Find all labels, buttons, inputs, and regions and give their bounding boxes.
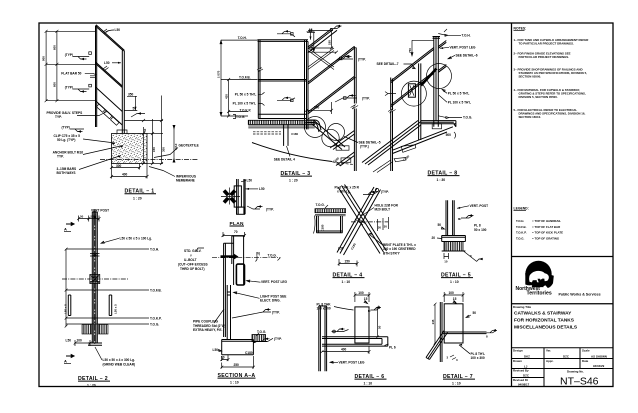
weld flag at rail top (330, 26, 342, 29)
svg-text:350: 350 (128, 92, 134, 96)
top sloped handrail (96, 25, 125, 51)
light post narrow rect (224, 243, 234, 337)
svg-text:500: 500 (446, 133, 452, 137)
svg-text:50: 50 (378, 325, 382, 329)
svg-text:L50: L50 (115, 28, 121, 32)
svg-text:(TYP): (TYP) (65, 86, 73, 90)
break zigzag on left vertical (388, 109, 396, 114)
white bear silhouette (529, 271, 549, 282)
dash-dot mid line (62, 278, 128, 280)
svg-text:MAX: MAX (174, 144, 178, 150)
grade dash-dot line (100, 159, 198, 161)
bracket at tank (307, 120, 322, 132)
svg-text:AS SHOWN: AS SHOWN (591, 355, 607, 359)
dark sleeve (236, 264, 244, 285)
svg-text:400: 400 (341, 347, 347, 351)
flat bar double line (90, 76, 96, 78)
svg-text:Appr.: Appr. (546, 359, 554, 363)
svg-text:(TYP.: (TYP. (272, 311, 280, 315)
weld flag near post2 base (131, 114, 145, 118)
svg-text:70: 70 (234, 230, 238, 234)
T.O.F.B. line (66, 289, 149, 291)
stringer channel sloped down-left (330, 131, 354, 150)
svg-text:Territories: Territories (527, 291, 552, 297)
mid rail ascending (308, 46, 356, 84)
svg-text:TYP.: TYP. (55, 115, 62, 119)
svg-text:Design: Design (513, 349, 523, 353)
svg-text:(TYP.: (TYP. (274, 337, 282, 341)
svg-text:(TYP.: (TYP. (381, 190, 389, 194)
svg-text:1 070: 1 070 (217, 70, 221, 78)
lower stringer diagonal (336, 152, 354, 166)
svg-text:L50 x 50 x 5 x 100 Lg.: L50 x 50 x 5 x 100 Lg. (120, 236, 153, 240)
right dim chain verticals (124, 96, 175, 166)
svg-text:T.O.K.P.: T.O.K.P. (516, 231, 527, 235)
weld flag (461, 216, 474, 219)
lower step rect (341, 158, 351, 162)
svg-text:C180: C180 (291, 132, 298, 136)
svg-text:THRD OF BOLT): THRD OF BOLT) (180, 267, 205, 271)
svg-text:T.O.H.: T.O.H. (150, 247, 159, 251)
rail stub beyond post (438, 41, 446, 49)
svg-text:SEE DETAIL–7: SEE DETAIL–7 (377, 62, 399, 66)
concrete pad (112, 134, 148, 164)
svg-text:1 : 20: 1 : 20 (133, 196, 142, 200)
left post (258, 40, 260, 119)
svg-text:15: 15 (309, 28, 313, 32)
dim 500 (307, 102, 332, 114)
svg-text:T.O.F.B.: T.O.F.B. (150, 288, 162, 292)
post top cap (433, 37, 441, 39)
svg-text:DKZ: DKZ (524, 355, 530, 359)
svg-text:T.O.G.: T.O.G. (268, 254, 277, 258)
svg-text:50: 50 (133, 107, 137, 111)
stringer diagonal band (down-left) (337, 187, 381, 255)
flat bar rail (258, 80, 306, 82)
svg-text:L50: L50 (104, 61, 110, 65)
base angle (88, 343, 102, 345)
svg-text:1 : 10: 1 : 10 (342, 280, 351, 284)
svg-text:400: 400 (122, 173, 128, 177)
vertical dim 180 (313, 32, 315, 51)
svg-text:L50: L50 (259, 187, 265, 191)
flat bar left section (68, 295, 71, 316)
dim 10 below (444, 253, 449, 259)
svg-text:T.O.G.: T.O.G. (463, 116, 472, 120)
svg-text:T.O.F.B.: T.O.F.B. (239, 75, 251, 79)
svg-text:DIVISION 5, SECTION 05500.: DIVISION 5, SECTION 05500. (519, 95, 558, 99)
divider above logo (512, 256, 614, 258)
tank arc left (314, 216, 316, 234)
svg-text:C180: C180 (245, 351, 253, 355)
svg-text:SEE DETAIL–6: SEE DETAIL–6 (456, 53, 478, 57)
svg-text:DZC: DZC (523, 374, 530, 378)
weld flag right of plate (371, 308, 382, 311)
svg-text:(6): (6) (256, 252, 260, 256)
T.O.K.P. line (66, 317, 149, 319)
svg-text:Date: Date (582, 359, 589, 363)
svg-text:15: 15 (364, 297, 368, 301)
note 5 (514, 108, 586, 119)
svg-text:BOTH WAYS: BOTH WAYS (57, 171, 76, 175)
plate rect (355, 307, 369, 343)
divider above title (512, 303, 614, 305)
svg-text:PL 6: PL 6 (389, 346, 396, 350)
svg-text:PL 100 x 5 TH'L: PL 100 x 5 TH'L (233, 102, 256, 106)
NWT polar bear logo (516, 261, 601, 297)
post break zigzag (351, 105, 359, 110)
bolt centreline dashed (351, 221, 388, 223)
clip angle on pad (117, 130, 127, 134)
svg-text:(TYP.: (TYP. (362, 96, 370, 100)
callout circle 2 (322, 129, 339, 146)
plate rect (444, 304, 463, 343)
svg-text:Drawing No.: Drawing No. (567, 370, 584, 374)
bold plate on rail (421, 69, 437, 86)
svg-text:(TYP): (TYP) (65, 53, 73, 57)
legend items (516, 219, 563, 240)
flat bar right section (109, 295, 112, 316)
mid connector block (90, 275, 100, 284)
section cut marker A bottom (66, 355, 74, 358)
upper rail ascending to post (391, 48, 434, 83)
steps on stringer (401, 145, 416, 153)
right panel divider (511, 23, 513, 387)
post tube (446, 200, 454, 235)
leader arrow right (245, 188, 258, 190)
low rail ascending (308, 76, 356, 114)
svg-text:STD. GALV.: STD. GALV. (184, 249, 202, 253)
svg-text:1 : 20: 1 : 20 (87, 383, 96, 387)
weld symbol mid left (332, 329, 349, 332)
svg-text:T.O.G.: T.O.G. (516, 236, 525, 240)
channel below grating (317, 216, 343, 233)
step rect on stringer (336, 146, 349, 150)
weld flag upper right (232, 310, 271, 319)
lower sloped stringer (96, 87, 123, 125)
svg-text:U–BOLT: U–BOLT (184, 258, 197, 262)
lower pipe post (227, 285, 230, 340)
svg-text:Drawing Title: Drawing Title (513, 305, 531, 309)
lower rail ascending (391, 72, 434, 107)
svg-text:T.O.G.: T.O.G. (316, 203, 325, 207)
note 2 (514, 51, 571, 59)
svg-text:LEGEND:: LEGEND: (514, 207, 529, 211)
svg-text:1 : 10: 1 : 10 (450, 280, 459, 284)
svg-text:PARTICULAR PROJECT DRAWINGS.: PARTICULAR PROJECT DRAWINGS. (519, 55, 570, 59)
svg-text:1 : 30: 1 : 30 (437, 178, 446, 182)
svg-text:T.O.K.P.: T.O.K.P. (150, 316, 162, 320)
svg-text:T.O.H.: T.O.H. (238, 36, 247, 40)
callout circle detail5 (328, 124, 345, 141)
svg-text:L50: L50 (66, 339, 72, 343)
svg-text:300: 300 (161, 147, 165, 152)
right post (305, 40, 309, 130)
dims 30 30 (378, 217, 389, 231)
top dims 50 50 (79, 216, 100, 222)
weld flag top (363, 192, 378, 195)
svg-text:L50 x 5: L50 x 5 (64, 304, 68, 314)
svg-text:(TYP.: (TYP. (266, 208, 274, 212)
T.O.G. line (66, 323, 149, 325)
svg-text:15: 15 (453, 297, 457, 301)
svg-text:430: 430 (224, 94, 228, 99)
svg-text:1 : 10: 1 : 10 (364, 381, 373, 385)
svg-text:TO PARTICULAR PROJECT DRAWINGS: TO PARTICULAR PROJECT DRAWINGS. (519, 42, 574, 46)
section cut marker A top (66, 223, 74, 226)
top handrail (258, 40, 309, 42)
tank shell arc (252, 143, 332, 162)
vertical bar (440, 302, 442, 362)
svg-text:180: 180 (327, 40, 331, 45)
svg-text:SECTION 05500.: SECTION 05500. (519, 74, 542, 78)
shallow stringer diagonal to landing (393, 127, 453, 154)
svg-text:EXTRA HEAVY, P.E.: EXTRA HEAVY, P.E. (193, 328, 222, 332)
dash-dot centreline (212, 257, 280, 259)
grating sections (82, 325, 92, 335)
svg-text:Scale: Scale (582, 349, 590, 353)
svg-text:= TOP OF HANDRAIL: = TOP OF HANDRAIL (532, 219, 561, 223)
bottom dims 50 250 (222, 355, 228, 361)
svg-text:T.O.G.: T.O.G. (236, 115, 245, 119)
left vertical stringer line (391, 78, 393, 172)
svg-text:150: 150 (345, 259, 351, 263)
mid sloped rail (96, 62, 123, 88)
svg-text:Public Works & Services: Public Works & Services (559, 292, 601, 296)
svg-text:= TOP OF FLAT BAR: = TOP OF FLAT BAR (532, 225, 561, 229)
callout circle 1 (305, 117, 326, 138)
svg-text:TYP.: TYP. (57, 155, 64, 159)
svg-text:T.O.F.B.: T.O.F.B. (516, 225, 527, 229)
svg-text:MEMBRANE: MEMBRANE (176, 179, 195, 183)
svg-text:T.O.G.: T.O.G. (150, 322, 159, 326)
svg-text:20: 20 (432, 236, 436, 240)
dim 50 rotated right (377, 307, 379, 337)
post joint marks (90, 254, 100, 257)
svg-text:VERT. POST: VERT. POST (470, 204, 489, 208)
bottom dim 300 (112, 164, 140, 170)
dim ext line at y52 (308, 51, 338, 54)
svg-text:600: 600 (53, 45, 57, 50)
horizontal rail line (442, 332, 487, 334)
svg-text:50: 50 (143, 128, 147, 132)
note 4 (514, 88, 586, 99)
top dim line at post (411, 40, 434, 56)
dim 100 top (444, 292, 463, 302)
weld symbol top (277, 31, 295, 37)
callout circle left (401, 81, 426, 106)
grating band (248, 120, 314, 124)
left dimension line pair (45, 30, 96, 102)
svg-text:FOR HORIZONTAL TANKS: FOR HORIZONTAL TANKS (514, 318, 575, 324)
svg-text:50: 50 (80, 215, 84, 219)
hidden dash line under grating (253, 131, 281, 133)
svg-text:50: 50 (221, 356, 225, 360)
svg-text:50: 50 (438, 223, 442, 227)
svg-text:C180: C180 (321, 224, 325, 231)
svg-text:600: 600 (53, 82, 57, 87)
svg-text:VERT. POST LEG: VERT. POST LEG (450, 45, 477, 49)
callout circle right (427, 64, 452, 89)
grating band (315, 209, 346, 213)
svg-text:A: A (64, 359, 67, 364)
svg-text:SEE DETAIL 4: SEE DETAIL 4 (274, 157, 295, 161)
svg-text:= TOP OF KICK PLATE: = TOP OF KICK PLATE (532, 231, 563, 235)
svg-text:750: 750 (408, 48, 412, 53)
diagonal channel band (426, 331, 448, 360)
svg-text:NT–S46: NT–S46 (560, 376, 599, 388)
grating rect under post (432, 124, 441, 129)
handrail post L50 vertical (96, 26, 97, 128)
svg-text:150: 150 (152, 147, 156, 152)
svg-text:A: A (64, 227, 67, 232)
landing platform lines (421, 121, 456, 127)
base plate (222, 340, 254, 355)
title block texts (513, 349, 607, 387)
stringer sloped band down-left (362, 121, 421, 166)
note 3 (514, 67, 588, 78)
post break mark (257, 68, 263, 72)
drawing title (513, 305, 578, 331)
svg-text:FLAT BAR 50: FLAT BAR 50 (61, 71, 81, 75)
svg-text:30: 30 (378, 226, 382, 230)
svg-text:PL 50 x 5 TH'L: PL 50 x 5 TH'L (448, 91, 470, 95)
svg-text:L50: L50 (247, 178, 253, 182)
svg-text:Ver.: Ver. (546, 349, 551, 353)
svg-text:900: 900 (42, 56, 46, 61)
svg-text:1 : 10: 1 : 10 (230, 380, 239, 384)
plan vertical bar lines (237, 179, 246, 214)
svg-text:(TYP.): (TYP.) (360, 145, 369, 149)
svg-text:SECTION 16010.: SECTION 16010. (519, 115, 542, 119)
svg-text:PL 100 x 5 TH'L: PL 100 x 5 TH'L (448, 100, 471, 104)
weld flag TYP upper (331, 55, 353, 64)
svg-text:VERT. POST LEG: VERT. POST LEG (339, 360, 366, 364)
grating at right (252, 335, 266, 342)
mid vertical post (354, 47, 356, 104)
svg-text:94/08/17: 94/08/17 (518, 382, 530, 386)
grating support band (248, 126, 314, 128)
horizontal flat bar (322, 337, 388, 346)
top rail ascending (308, 28, 338, 53)
svg-text:145: 145 (431, 319, 435, 324)
svg-text:(TYP): (TYP) (62, 126, 70, 130)
svg-text:94/04/29: 94/04/29 (593, 364, 605, 368)
svg-text:= TOP OF GRATING: = TOP OF GRATING (532, 236, 560, 240)
sloped stringer (312, 121, 346, 150)
svg-text:PL 50 x 5 TH'L: PL 50 x 5 TH'L (235, 92, 257, 96)
svg-text:250: 250 (234, 363, 240, 367)
svg-text:L50: L50 (338, 247, 344, 251)
weld flag TYP (247, 206, 263, 209)
note 1 (514, 38, 590, 46)
svg-text:50 x 100: 50 x 100 (474, 228, 487, 232)
svg-text:(GRIND WEB CLEAR): (GRIND WEB CLEAR) (103, 362, 136, 366)
right end flag (487, 330, 498, 333)
svg-text:ELECT. DWG.: ELECT. DWG. (260, 299, 281, 303)
bottom dim 400 (112, 164, 148, 179)
svg-text:Revised By: Revised By (513, 369, 529, 373)
second post (419, 63, 421, 140)
base plate (442, 236, 466, 242)
svg-text:10: 10 (444, 259, 448, 263)
title block grid (512, 348, 614, 387)
vertical post (319, 306, 327, 371)
dim 150 (339, 259, 357, 267)
svg-text:T.O.K.P.: T.O.K.P. (240, 108, 252, 112)
svg-text:GEOTEXTILE: GEOTEXTILE (179, 144, 199, 148)
legend header (514, 207, 529, 211)
svg-text:VERT. POST LEG: VERT. POST LEG (261, 280, 288, 284)
post flange verticals (92, 212, 97, 343)
drawing sheet frame (39, 23, 613, 387)
weld flag lower right (256, 338, 273, 341)
svg-text:100: 100 (358, 291, 364, 295)
stair rail post L50 (122, 51, 124, 134)
svg-text:PL 8: PL 8 (474, 224, 481, 228)
svg-text:100: 100 (449, 291, 455, 295)
main post vertical (434, 37, 439, 127)
X brace near post (308, 48, 334, 70)
vertical support (284, 124, 288, 146)
rail break marks (103, 29, 109, 71)
dim 145 rotated left (434, 304, 436, 343)
notes header (514, 27, 527, 31)
svg-text:30: 30 (384, 225, 388, 229)
grating below (444, 242, 463, 252)
U-bolt black (221, 255, 236, 257)
svg-text:300: 300 (116, 164, 122, 168)
weld flag TYP lower (335, 96, 357, 103)
svg-text:CATWALKS & STAIRWAY: CATWALKS & STAIRWAY (514, 311, 572, 317)
svg-text:NOTES:: NOTES: (514, 27, 527, 31)
right dim 180 (308, 30, 333, 48)
bent plate diagonal band (down-right) (338, 185, 387, 254)
svg-text:1 : 10: 1 : 10 (452, 381, 461, 385)
svg-text:BTH STR'Y: BTH STR'Y (383, 251, 401, 255)
weld symbol mid (277, 98, 295, 101)
svg-text:100 x 300: 100 x 300 (471, 356, 485, 360)
leader into circles (385, 92, 396, 96)
svg-text:M20 BOLT: M20 BOLT (375, 208, 391, 212)
svg-text:MISCELLANEOUS DETAILS: MISCELLANEOUS DETAILS (514, 325, 578, 331)
plan plate rect (234, 186, 241, 207)
svg-text:T.O.H.: T.O.H. (462, 33, 471, 37)
left dim line 1070 (220, 40, 258, 117)
svg-text:50: 50 (473, 311, 477, 315)
dim 100 top (355, 292, 369, 302)
svg-text:T.O.H.: T.O.H. (516, 219, 524, 223)
post centre dash line (94, 209, 96, 345)
post L-angle black cross (224, 191, 235, 203)
left dim chain (65, 249, 67, 327)
dim 400 (322, 347, 369, 355)
dim 70 at top (223, 232, 245, 237)
upper post tube (232, 236, 244, 285)
svg-text:DZC: DZC (563, 355, 570, 359)
svg-text:V: V (190, 253, 192, 257)
svg-text:1 : 20: 1 : 20 (289, 178, 298, 182)
kick plate (258, 114, 306, 118)
post cap (92, 211, 97, 213)
lower diagonals (373, 160, 393, 173)
svg-text:L50: L50 (213, 348, 219, 352)
svg-text:L50 x 5: L50 x 5 (114, 304, 118, 314)
svg-text:50 Lg. (TYP): 50 Lg. (TYP) (57, 138, 75, 142)
svg-text:Drawn: Drawn (513, 359, 522, 363)
T.O.H. line (66, 248, 149, 250)
svg-text:100: 100 (77, 339, 83, 343)
